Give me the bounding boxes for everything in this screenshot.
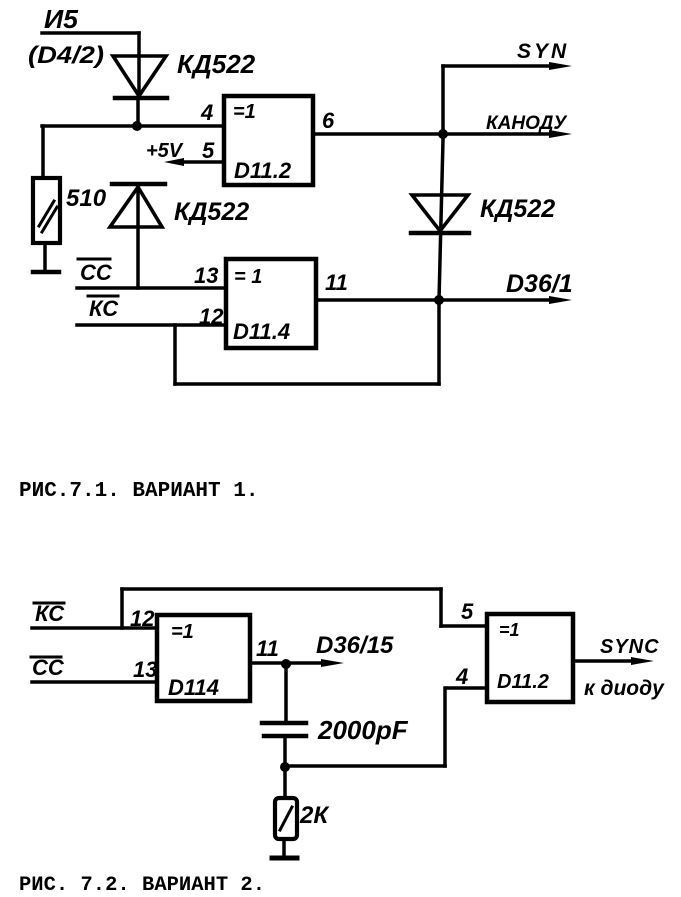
diode VD2 KD522 <box>110 184 165 227</box>
wire <box>285 764 445 768</box>
svg-text:D114: D114 <box>168 675 219 700</box>
wire <box>136 98 140 126</box>
value label 2000pF <box>317 715 409 745</box>
wire <box>282 839 286 857</box>
wire SYN output <box>443 62 572 70</box>
value label 510 <box>66 185 107 212</box>
gate U2 D11.4 <box>226 259 316 348</box>
node junction D <box>281 659 291 669</box>
svg-text:РИС.7.1. ВАРИАНТ 1.: РИС.7.1. ВАРИАНТ 1. <box>19 480 258 503</box>
node I5 label <box>44 4 79 34</box>
signal CC input label (circuit 2) <box>31 655 65 680</box>
pin 11 label <box>325 270 348 295</box>
signal KC input label <box>88 296 119 321</box>
wire CC <box>77 286 226 290</box>
svg-text:4: 4 <box>455 664 468 689</box>
wire SYNC output <box>573 657 654 665</box>
wire <box>137 33 141 98</box>
pin 6 label <box>322 108 335 133</box>
svg-text:11: 11 <box>256 636 279 661</box>
pin 13 label <box>194 263 218 288</box>
wire <box>43 243 47 271</box>
gate U4 D11.2 <box>487 614 573 702</box>
svg-text:SYN: SYN <box>517 40 569 63</box>
svg-text:КС: КС <box>35 601 65 626</box>
svg-text:D11.4: D11.4 <box>233 319 290 344</box>
svg-text:СС: СС <box>32 655 65 680</box>
svg-text:11: 11 <box>325 270 348 295</box>
wire pin4 (U4) <box>447 686 487 690</box>
svg-text:12: 12 <box>199 304 224 329</box>
svg-text:РИС. 7.2. ВАРИАНТ 2.: РИС. 7.2. ВАРИАНТ 2. <box>19 874 265 897</box>
label SYNC <box>600 636 660 658</box>
power +5V arrow pin 5 <box>164 158 224 166</box>
svg-text:4: 4 <box>200 100 213 125</box>
svg-text:D36/15: D36/15 <box>316 632 394 659</box>
wire <box>439 66 443 384</box>
svg-text:510: 510 <box>66 185 107 212</box>
label k diodu <box>584 677 665 700</box>
signal CC input label <box>78 259 113 285</box>
label D36/15 <box>316 632 394 659</box>
capacitor C1 2000pF <box>262 723 306 736</box>
resistor R1 510 <box>33 178 60 243</box>
value label 2K <box>299 802 330 829</box>
wire pin5 (U4) <box>441 624 487 628</box>
svg-text:КД522: КД522 <box>174 198 249 226</box>
svg-text:SYNC: SYNC <box>600 636 660 658</box>
wire <box>41 126 45 178</box>
svg-text:+5V: +5V <box>146 140 184 162</box>
svg-text:=1: =1 <box>499 620 520 640</box>
svg-text:КД522: КД522 <box>177 49 256 79</box>
wire pin11 D36/1 output <box>316 296 572 304</box>
node (D4/2) label <box>28 42 104 69</box>
pin 13 label (U3) <box>133 657 157 682</box>
pin 5 label (U4) <box>461 599 474 624</box>
wire <box>42 31 139 35</box>
signal KC input label (circuit 2) <box>34 601 65 626</box>
wire pin6 to anode <box>313 130 572 138</box>
node junction E <box>280 762 290 772</box>
value label KD522 (VD3) <box>480 195 555 223</box>
svg-text:D36/1: D36/1 <box>506 270 573 298</box>
wire <box>439 589 443 626</box>
wire <box>283 736 287 798</box>
diode VD3 KD522 <box>411 195 469 233</box>
caption figure 7.2 <box>19 874 265 897</box>
value label KD522 (VD2) <box>174 198 249 226</box>
ground terminal bar <box>33 270 59 275</box>
resistor R2 2K <box>275 798 297 839</box>
svg-text:= 1: = 1 <box>234 266 262 288</box>
gate U3 D11.4 <box>157 615 250 701</box>
pin 12 label <box>199 304 224 329</box>
pin 11 label (U3) <box>256 636 279 661</box>
node junction A <box>132 121 142 131</box>
pin 12 label (U3) <box>130 606 155 631</box>
svg-text:5: 5 <box>461 599 474 624</box>
svg-text:12: 12 <box>130 606 155 631</box>
node junction B <box>438 129 448 139</box>
svg-text:КД522: КД522 <box>480 195 555 223</box>
wire <box>284 664 288 723</box>
wire KC <box>77 323 226 327</box>
wire KC2 <box>32 626 157 630</box>
pin 5 label <box>202 138 215 163</box>
gate U1 D11.2 <box>224 96 313 185</box>
wire <box>136 184 140 288</box>
svg-text:КАНОДУ: КАНОДУ <box>486 113 568 134</box>
svg-text:СС: СС <box>80 260 113 285</box>
label SYN <box>517 40 569 63</box>
wire CC2 <box>32 680 157 684</box>
label D36/1 <box>506 270 573 298</box>
caption figure 7.1 <box>19 480 258 503</box>
wire <box>443 688 447 766</box>
diode VD1 KD522 <box>113 56 167 98</box>
wire feedback top (circuit 2) <box>120 589 124 628</box>
wire feedback bottom <box>175 382 439 386</box>
label +5V <box>146 140 184 162</box>
wire pin4 net <box>42 124 224 128</box>
svg-text:=1: =1 <box>233 101 256 123</box>
pin 4 label (U4) <box>455 664 468 689</box>
svg-text:D11.2: D11.2 <box>497 671 549 693</box>
value label KD522 (VD1) <box>177 49 256 79</box>
wire feedback <box>173 325 177 384</box>
svg-text:=1: =1 <box>171 621 194 643</box>
node junction C <box>434 295 444 305</box>
wire <box>122 587 441 591</box>
svg-text:13: 13 <box>194 263 218 288</box>
svg-text:5: 5 <box>202 138 215 163</box>
svg-text:6: 6 <box>322 108 335 133</box>
svg-text:D11.2: D11.2 <box>234 158 292 183</box>
svg-text:И5: И5 <box>44 4 79 34</box>
svg-text:2К: 2К <box>299 802 330 829</box>
svg-text:к диоду: к диоду <box>584 677 665 700</box>
svg-text:(D4/2): (D4/2) <box>28 42 104 69</box>
pin 4 label <box>200 100 213 125</box>
svg-text:2000pF: 2000pF <box>317 715 409 745</box>
ground <box>272 856 297 861</box>
svg-text:13: 13 <box>133 657 157 682</box>
wire pin11 D36/15 output <box>250 659 344 667</box>
label K ANODU <box>486 113 568 134</box>
svg-text:КС: КС <box>89 296 119 321</box>
